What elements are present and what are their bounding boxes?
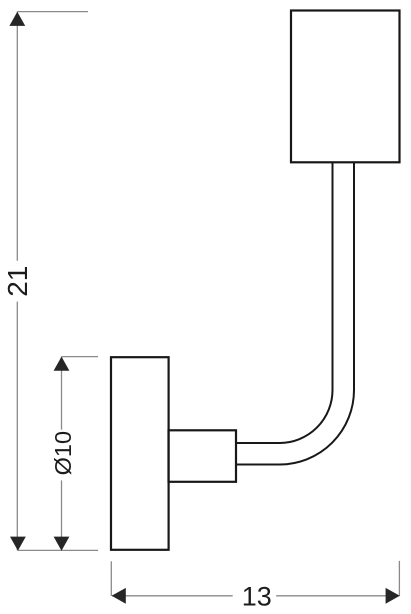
socket rectangle [169,430,237,482]
bottom extension line [18,549,98,551]
tube inner outline [236,162,333,443]
top extension line [17,11,88,13]
arrow down 21 [10,537,26,551]
diameter extension line top [62,356,99,358]
arrow down diameter [54,537,70,551]
lamp shade rectangle [291,11,400,163]
dimension line diameter upper segment [61,357,63,430]
right extension line 13 [398,561,400,596]
svg-text:13: 13 [242,582,272,612]
tube outer outline [236,162,354,464]
svg-text:Ø10: Ø10 [50,431,76,475]
wall mount rectangle [111,357,169,550]
dimension line diameter lower segment [61,480,63,550]
dimension line 21 lower segment [16,302,18,551]
arrow right 13 [386,588,400,604]
dimension line 21 upper segment [16,12,18,261]
dimension line 13 right segment [276,595,399,597]
dimension line 13 left segment [112,595,233,597]
svg-text:21: 21 [2,266,33,297]
left extension line 13 [110,561,112,596]
arrow left 13 [112,588,126,604]
arrow up 21 [9,12,25,26]
arrow up diameter [54,357,70,371]
